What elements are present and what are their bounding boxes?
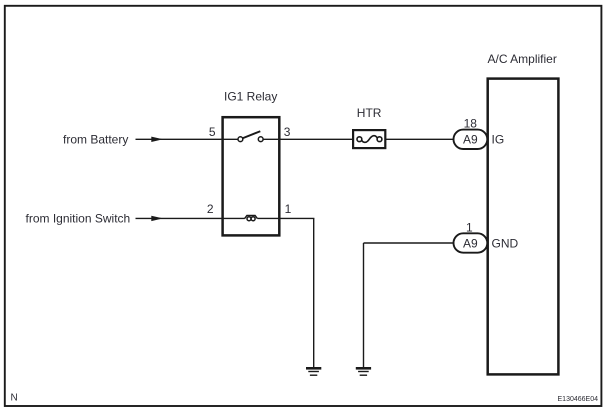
svg-text:18: 18 xyxy=(464,117,478,131)
wire: relay pin 3 to fuse and A9 IG xyxy=(263,138,453,140)
svg-text:1: 1 xyxy=(466,220,473,234)
svg-text:IG1 Relay: IG1 Relay xyxy=(224,89,277,103)
A/C Amplifier box xyxy=(488,79,559,375)
svg-text:GND: GND xyxy=(492,236,519,250)
wire: down to ground 2 xyxy=(363,243,365,367)
svg-text:from Battery: from Battery xyxy=(63,133,128,147)
ground 2 xyxy=(356,368,371,375)
connector A9 pin 1 (GND) xyxy=(454,233,488,252)
fuse HTR xyxy=(353,130,385,148)
svg-text:from Ignition Switch: from Ignition Switch xyxy=(26,212,131,226)
svg-text:HTR: HTR xyxy=(357,106,382,120)
svg-text:1: 1 xyxy=(285,202,292,216)
relay IG1 Relay box xyxy=(223,117,280,235)
svg-text:5: 5 xyxy=(209,125,216,139)
wire: battery feed to relay pin 5 xyxy=(136,138,239,140)
wire: down to ground 1 xyxy=(313,218,315,367)
wire: ignition feed to relay pin 2 / coil xyxy=(136,217,245,219)
switch lever xyxy=(243,131,261,138)
svg-text:IG: IG xyxy=(492,133,505,147)
svg-text:2: 2 xyxy=(207,202,214,216)
svg-text:N: N xyxy=(11,393,18,404)
wire: relay pin 1 to corner xyxy=(257,217,314,219)
svg-text:A/C Amplifier: A/C Amplifier xyxy=(488,52,557,66)
wire: A9 GND to corner xyxy=(364,242,454,244)
relay coil xyxy=(245,216,258,221)
switch contact left xyxy=(238,137,243,142)
svg-text:E130466E04: E130466E04 xyxy=(558,396,599,403)
arrow on ignition wire xyxy=(151,216,163,221)
arrow on battery wire xyxy=(151,137,163,142)
svg-text:A9: A9 xyxy=(463,236,478,250)
switch contact right xyxy=(258,137,263,142)
svg-text:3: 3 xyxy=(284,125,291,139)
connector A9 pin 18 (IG) xyxy=(454,130,488,149)
ground 1 xyxy=(306,368,321,375)
svg-text:A9: A9 xyxy=(463,133,478,147)
